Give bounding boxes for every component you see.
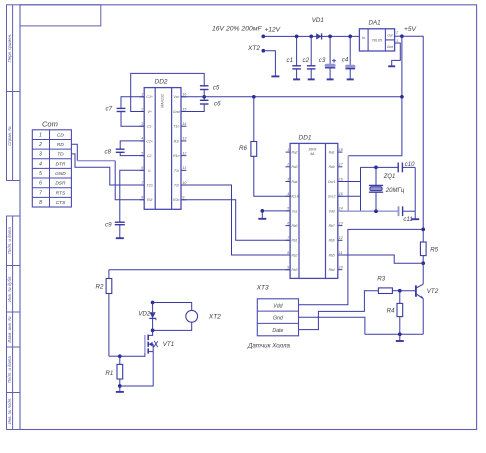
svg-text:CTS: CTS [56, 200, 66, 206]
node VD2 top [151, 301, 155, 305]
svg-text:R2o: R2o [173, 198, 179, 202]
svg-text:Vdd: Vdd [273, 303, 283, 309]
resistor R3 [377, 276, 400, 294]
wire Com TD to DD2 pin7 [71, 154, 144, 185]
stamp cell Inv. No. podl. [7, 393, 21, 430]
svg-text:c3: c3 [319, 57, 326, 64]
svg-text:DTR: DTR [55, 161, 65, 167]
wire DD1 pin11 to R5 bottom [338, 255, 423, 263]
svg-text:RTS: RTS [56, 190, 66, 196]
svg-text:4A: 4A [310, 152, 315, 156]
node R5 top [421, 228, 425, 232]
wire DD1 pin16 Osc1 to crystal [338, 167, 361, 181]
svg-text:Vdd: Vdd [329, 209, 335, 213]
svg-text:C2+: C2+ [146, 139, 153, 143]
svg-text:VD2: VD2 [138, 310, 151, 317]
DD1 pin 14 [329, 207, 343, 214]
wire RD net horizontal segment [77, 160, 115, 162]
svg-text:c9: c9 [105, 222, 112, 229]
wire VT2 emitter down [422, 298, 424, 334]
svg-text:c8: c8 [105, 148, 112, 155]
op DD1 16F84 microcontroller body [290, 135, 338, 279]
svg-text:Rb3: Rb3 [291, 268, 297, 272]
stamp cell Inv. No. dubl. [7, 266, 21, 313]
DD2 pin 3 [140, 122, 154, 129]
ground below C1 [293, 78, 300, 80]
stamp cell Podp. i data 2 [7, 347, 21, 393]
wire XT3 Gnd to emitter rail [299, 317, 365, 334]
svg-text:c2: c2 [303, 57, 310, 64]
svg-text:Взам. инв. №: Взам. инв. № [7, 316, 12, 343]
DD2 pin 10 [174, 181, 187, 188]
svg-text:Rb6: Rb6 [329, 239, 335, 243]
svg-text:Инв. № подл.: Инв. № подл. [7, 398, 12, 425]
svg-text:6: 6 [141, 166, 143, 170]
svg-text:1: 1 [141, 93, 143, 97]
svg-text:15: 15 [339, 192, 343, 196]
svg-text:8: 8 [287, 251, 289, 255]
wire R1 bottom to VT1 source [120, 352, 153, 386]
ground at crystal [414, 211, 416, 219]
DD1 pin 15 [328, 192, 343, 199]
DD2 pin 12 [173, 151, 186, 158]
svg-text:16V 20% 200мF: 16V 20% 200мF [212, 26, 262, 33]
svg-text:c7: c7 [106, 106, 113, 113]
capacitor C2 [303, 35, 316, 79]
svg-text:R2: R2 [96, 284, 104, 291]
svg-text:Rb0: Rb0 [291, 224, 297, 228]
svg-text:2: 2 [38, 142, 42, 148]
DD1 pin 10 [329, 266, 343, 273]
wire DD1 pin15 Osc2 to crystal [338, 196, 361, 211]
ground at R4 [399, 334, 401, 340]
svg-text:+5V: +5V [404, 26, 417, 33]
resistor R4 [387, 291, 403, 335]
DD2 pin 8 [140, 196, 153, 203]
wire crystal left vertical [360, 167, 362, 211]
svg-text:18: 18 [339, 148, 343, 152]
svg-text:Rb7: Rb7 [329, 224, 335, 228]
svg-text:6: 6 [287, 221, 289, 225]
svg-text:2: 2 [395, 31, 398, 35]
DD1 pin 6 [286, 221, 298, 228]
diode VD1 [312, 17, 324, 40]
svg-text:Out: Out [387, 34, 392, 38]
wire +5V feed vertical (light) [347, 156, 349, 212]
wire R5 to VT2 collector [422, 263, 424, 284]
svg-text:MCLR: MCLR [290, 195, 300, 199]
frame top-left designation box [20, 5, 101, 26]
svg-text:Com: Com [42, 120, 58, 129]
svg-text:Подп. и дата: Подп. и дата [7, 227, 12, 255]
svg-text:2: 2 [286, 163, 289, 167]
wire base node to VT2 base [400, 290, 416, 292]
transistor VT2 [416, 284, 439, 298]
capacitor C10 [398, 162, 415, 173]
svg-text:Инв. № дубл.: Инв. № дубл. [7, 276, 12, 302]
wire Vcc net (+5V) horizontal [181, 96, 402, 98]
DD1 pin 9 [286, 266, 298, 273]
svg-text:8: 8 [39, 200, 42, 206]
DD2 pin 4 [140, 137, 153, 144]
capacitor C11 [399, 206, 416, 223]
capacitor C8 [105, 141, 145, 156]
DD1 pin 4 [286, 192, 300, 199]
svg-text:12: 12 [182, 151, 186, 155]
svg-text:R4: R4 [387, 308, 395, 315]
svg-text:DD1: DD1 [299, 135, 312, 142]
svg-text:9: 9 [287, 266, 289, 270]
svg-text:Gnd: Gnd [273, 316, 284, 322]
ground below C2 [308, 78, 315, 80]
regulator DA1 7805 [359, 20, 394, 52]
DD2 pin 14 [173, 122, 186, 129]
svg-text:C1+: C1+ [146, 95, 153, 99]
DD2 pin 5 [140, 151, 154, 158]
resistor R6 [239, 95, 290, 196]
node R4 bottom [398, 332, 402, 336]
svg-text:DSR: DSR [55, 181, 66, 187]
svg-text:VT1: VT1 [163, 341, 174, 348]
svg-text:CD: CD [57, 132, 64, 138]
svg-text:Ra3: Ra3 [291, 165, 297, 169]
DD1 pin 8 [286, 251, 298, 258]
svg-text:13: 13 [339, 221, 343, 225]
svg-text:Rb4: Rb4 [329, 268, 335, 272]
svg-text:Ra4: Ra4 [291, 180, 297, 184]
DD2 pin 11 [174, 166, 187, 173]
svg-text:Date: Date [272, 328, 283, 334]
stamp cell Perv. primen. [7, 5, 21, 92]
resistor R1 [105, 356, 122, 386]
DD1 pin 13 [329, 221, 343, 228]
wire DD1 pin14 Vdd / crystal bottom (light) [338, 210, 399, 212]
svg-text:R1: R1 [105, 370, 113, 377]
stamp cell Sprav. No. [7, 92, 21, 181]
svg-text:Перв. примен.: Перв. примен. [7, 34, 12, 63]
svg-text:12: 12 [339, 236, 343, 240]
svg-text:Ra0: Ra0 [329, 165, 335, 169]
connector Com (RS-232 port) [32, 120, 71, 208]
svg-text:Gnd: Gnd [173, 110, 181, 114]
svg-text:Rb1: Rb1 [291, 239, 297, 243]
node crystal bottom [374, 209, 378, 213]
wire +12V rail [263, 35, 359, 37]
svg-text:16: 16 [339, 177, 343, 181]
svg-text:V+: V+ [148, 110, 152, 114]
crystal ZQ1 20MHz [369, 167, 405, 211]
resistor R2 [96, 270, 112, 357]
svg-text:c6: c6 [214, 101, 221, 108]
resistor R5 [420, 229, 438, 263]
ground below C4 [347, 78, 354, 80]
DD1 pin 7 [286, 236, 298, 243]
node +5V [400, 34, 404, 38]
wire emitter bottom rail [365, 333, 423, 335]
svg-text:16F8: 16F8 [308, 148, 316, 152]
svg-text:9: 9 [182, 196, 184, 200]
svg-text:14: 14 [339, 207, 343, 211]
wire crystal right vertical [414, 167, 416, 211]
svg-text:C2-: C2- [147, 154, 153, 158]
stamp cell Podp. i data [7, 216, 21, 266]
capacitor C1 [287, 35, 301, 79]
svg-text:C1-: C1- [147, 125, 153, 129]
node XT2 ground pin [261, 49, 265, 53]
svg-text:VT2: VT2 [427, 288, 439, 295]
node gate/R1 [118, 354, 122, 358]
svg-text:Osc2: Osc2 [328, 195, 336, 199]
svg-text:5: 5 [287, 207, 289, 211]
svg-text:3: 3 [141, 122, 143, 126]
svg-text:R3: R3 [377, 276, 385, 283]
DD1 pin 3 [286, 177, 298, 184]
node VT1 drain [151, 329, 155, 333]
svg-text:20МГц: 20МГц [385, 188, 405, 194]
svg-text:T2o: T2o [147, 183, 153, 187]
node +12V input [261, 35, 265, 39]
svg-text:Ra2: Ra2 [291, 151, 297, 155]
svg-text:MAX232: MAX232 [160, 94, 164, 108]
svg-text:R1i: R1i [174, 139, 179, 143]
svg-text:1: 1 [39, 132, 42, 138]
node R1 bottom [118, 384, 122, 388]
svg-text:XT3: XT3 [256, 285, 269, 292]
svg-text:ZQ1: ZQ1 [383, 174, 396, 180]
svg-text:c5: c5 [213, 85, 220, 92]
ground below C9 [116, 237, 124, 239]
svg-text:XT2: XT2 [247, 45, 260, 52]
DD1 pin 17 [329, 163, 344, 170]
wire motor loop bottom [153, 322, 192, 330]
wire XT3 Date to R3 (base net) [299, 291, 379, 330]
svg-text:11: 11 [182, 166, 186, 170]
wire motor loop top [153, 303, 192, 311]
svg-text:RD: RD [57, 142, 64, 148]
wire +5V feed to DD1 Vdd [348, 97, 402, 156]
DD1 pin 12 [329, 236, 343, 243]
svg-text:Справ. №: Справ. № [7, 126, 12, 146]
node crystal top [374, 166, 378, 170]
svg-text:4: 4 [39, 161, 42, 167]
DD1 pin 1 [286, 148, 298, 155]
svg-text:Ra1: Ra1 [329, 151, 335, 155]
svg-text:Датчик Холла: Датчик Холла [247, 343, 291, 350]
svg-text:Rb5: Rb5 [329, 253, 335, 257]
svg-text:Rb2: Rb2 [291, 253, 297, 257]
svg-text:10: 10 [339, 266, 343, 270]
wire DD1 pin5 Vss to ground [262, 210, 290, 212]
DD1 pin 16 [328, 177, 343, 184]
DD1 pin 2 [286, 163, 298, 170]
svg-text:VD1: VD1 [312, 17, 324, 24]
wire crystal top [361, 166, 399, 168]
svg-text:10: 10 [182, 181, 186, 185]
DD2 pin 15 [173, 107, 186, 114]
wire +5V to R5 rail [402, 36, 423, 229]
DD2 pin 9 [173, 196, 186, 203]
svg-text:Osc1: Osc1 [328, 180, 336, 184]
wire +5V down to Vcc net [401, 36, 403, 97]
wire DA1 Out to +5V node [395, 35, 402, 37]
wire DD1 pin9 to R2 [109, 269, 290, 271]
capacitor C5 [200, 85, 220, 97]
svg-text:5: 5 [141, 151, 143, 155]
wire DD2 pin2 V+ loop to C5 [131, 73, 205, 111]
transistor VT1 (MOSFET) [145, 330, 174, 353]
DD1 pin 5 [286, 207, 298, 214]
svg-text:c4: c4 [342, 56, 349, 63]
svg-text:1: 1 [287, 148, 289, 152]
wire +5V to XT3 Vdd and R5 [299, 229, 424, 304]
svg-text:14: 14 [182, 122, 186, 126]
svg-text:2: 2 [140, 107, 143, 111]
svg-text:R6: R6 [239, 145, 247, 152]
svg-text:Gnd: Gnd [387, 45, 393, 49]
wire gate node to VT1 gate [120, 353, 145, 356]
svg-text:Vcc: Vcc [173, 95, 179, 99]
node R5 bottom / VT2 collector [421, 261, 425, 265]
DD2 pin 13 [174, 137, 187, 144]
wire R2 to gate / R1 node [109, 355, 120, 357]
svg-text:T2i: T2i [174, 183, 179, 187]
svg-text:16: 16 [182, 93, 186, 97]
svg-text:T1o: T1o [173, 125, 179, 129]
ground at DA1 [388, 65, 395, 67]
ground at DD1 Vss [261, 211, 263, 219]
DD2 pin 16 [173, 93, 186, 100]
svg-text:R2i: R2i [147, 198, 152, 202]
wire DD2 pin10 to DD1 pin8 [181, 185, 290, 255]
svg-text:Vss: Vss [292, 209, 298, 213]
capacitor C4 [342, 35, 355, 79]
svg-text:c1: c1 [287, 57, 294, 64]
node Vcc net junction [400, 95, 404, 99]
wire RD net to DD2 pin8 [115, 161, 144, 200]
svg-text:4: 4 [141, 137, 143, 141]
node junction C5/C6 on Vcc net [202, 95, 206, 99]
svg-text:XT2: XT2 [208, 313, 221, 320]
wire DD2 pin9 to DD1 pin7 [181, 200, 290, 241]
DD2 pin 2 [140, 107, 152, 114]
ground below C3 [327, 78, 334, 80]
DD2 pin 7 [140, 181, 153, 188]
svg-text:13: 13 [182, 137, 186, 141]
node on Vss wire [260, 209, 264, 213]
diode VD2 (protection) [138, 303, 156, 331]
connector XT3 [256, 285, 299, 336]
wire XT2 ground pin to ground [263, 51, 275, 76]
capacitor C3 (electrolytic) [319, 35, 336, 79]
svg-text:TD: TD [57, 152, 64, 158]
stamp cell Vzam. inv. No. [7, 312, 21, 347]
svg-text:7: 7 [39, 190, 42, 196]
svg-text:R1o: R1o [173, 154, 179, 158]
ground at power connector [271, 75, 279, 77]
DD1 pin 18 [329, 148, 343, 155]
svg-text:3: 3 [39, 152, 42, 158]
svg-text:T1i: T1i [174, 169, 179, 173]
svg-text:+12V: +12V [265, 27, 281, 34]
svg-text:DD2: DD2 [155, 79, 168, 86]
svg-text:DA1: DA1 [369, 20, 381, 27]
svg-text:3: 3 [396, 39, 398, 43]
svg-text:Подп. и дата: Подп. и дата [7, 356, 12, 384]
DD2 pin 6 [140, 166, 153, 173]
capacitor C7 [106, 97, 145, 126]
capacitor C9 [105, 170, 144, 238]
svg-text:11: 11 [339, 251, 343, 255]
wire Com RD to DD2 pin8 [71, 144, 77, 160]
svg-text:6: 6 [39, 181, 42, 187]
svg-text:3: 3 [287, 177, 289, 181]
node VT2 base / R4 top [398, 289, 402, 293]
svg-text:5: 5 [39, 171, 42, 177]
wire DA1 Gnd to ground [392, 43, 401, 66]
DD1 pin 11 [329, 251, 343, 258]
svg-text:8: 8 [141, 196, 143, 200]
connector XT2 motor contact [186, 310, 198, 322]
capacitor C6 [181, 97, 221, 112]
svg-text:78L05: 78L05 [371, 39, 382, 43]
svg-text:GND: GND [55, 171, 66, 177]
svg-text:R5: R5 [430, 247, 438, 254]
DD2 pin 1 [140, 93, 153, 100]
ground at R1 [119, 386, 121, 392]
svg-text:c10: c10 [405, 162, 415, 168]
op DD2 MAX232 chip body [144, 79, 181, 210]
svg-text:15: 15 [182, 107, 186, 111]
